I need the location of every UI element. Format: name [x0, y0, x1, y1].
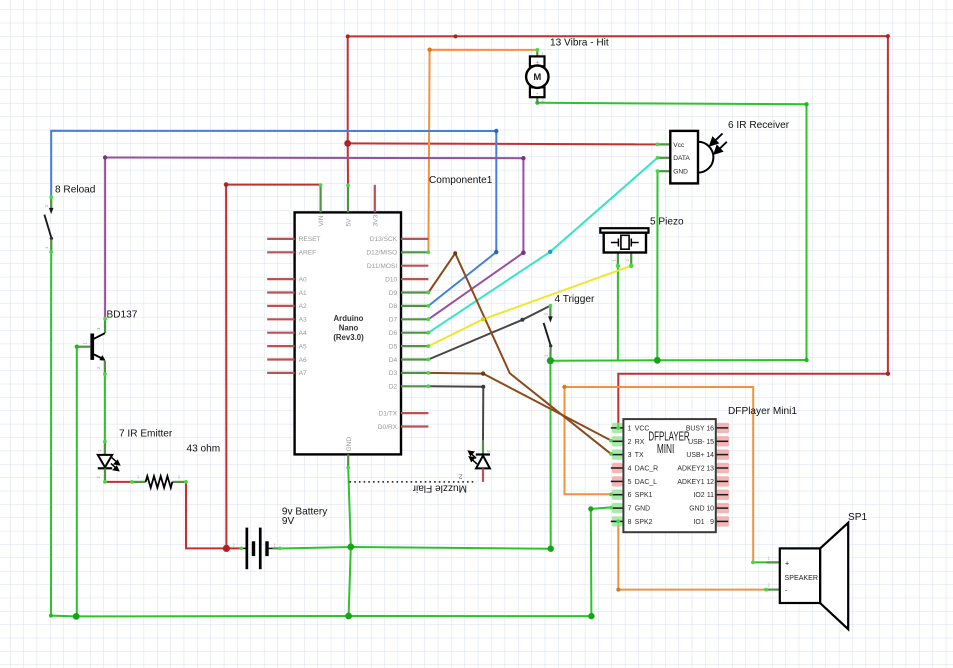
svg-text:USB+: USB+: [686, 452, 704, 459]
pin connection tips (bright green): [49, 48, 768, 591]
node green junctions: [73, 613, 80, 620]
svg-text:A7: A7: [299, 370, 307, 377]
node cyan bendpoint: [548, 250, 552, 254]
svg-text:DAC_L: DAC_L: [635, 479, 657, 486]
wire green battery-plus: [280, 547, 551, 549]
svg-text:D4: D4: [389, 357, 398, 364]
svg-text:3V3: 3V3: [372, 214, 379, 226]
svg-text:A2: A2: [299, 303, 307, 310]
wire cyan d6-to-ir-data: [428, 158, 657, 333]
svg-text:D5: D5: [389, 343, 398, 350]
wire green trigger-down: [549, 361, 551, 549]
wire red 5v-net-loop: [348, 36, 888, 428]
svg-text:VIN: VIN: [318, 215, 325, 226]
svg-text:DAC_R: DAC_R: [635, 466, 658, 473]
node green bendpoints: [49, 614, 53, 618]
svg-text:VCC: VCC: [635, 425, 650, 432]
svg-text:4: 4: [628, 466, 632, 473]
wire blue d8-to-reload: [51, 131, 496, 306]
svg-text:SPK2: SPK2: [635, 519, 653, 526]
node red vin corner: [224, 182, 229, 187]
svg-text:5V: 5V: [346, 218, 353, 227]
speaker SP1: [767, 523, 849, 629]
svg-text:ADKEY1: ADKEY1: [677, 479, 704, 486]
wire green trigger-bus: [550, 359, 806, 362]
svg-text:D12/MISO: D12/MISO: [366, 250, 397, 257]
svg-text:5 Piezo: 5 Piezo: [650, 217, 684, 228]
node gray bendpoints: [520, 318, 524, 322]
op-amp/mcu U1 Arduino Nano (Rev3.0) Componente1: [267, 185, 428, 468]
switch S1 trigger: [544, 306, 553, 361]
svg-text:Componente1: Componente1: [429, 175, 493, 186]
svg-text:D0/RX: D0/RX: [378, 424, 398, 431]
node brown bendpoints: [481, 371, 485, 375]
svg-text:AREF: AREF: [299, 250, 317, 257]
svg-text:GND: GND: [673, 169, 688, 176]
wire red resistor-to-battery: [186, 482, 241, 549]
wire orange spk1-to-speaker: [565, 387, 754, 562]
svg-text:Arduino: Arduino: [334, 314, 364, 323]
piezo SG1: [600, 228, 648, 266]
svg-text:A1: A1: [299, 290, 307, 297]
svg-text:D13/SCK: D13/SCK: [370, 236, 398, 243]
wire red led-to-resistor: [105, 481, 132, 483]
svg-text:12: 12: [706, 479, 714, 486]
svg-text:SPK1: SPK1: [635, 492, 653, 499]
svg-text:D11/MOSI: D11/MOSI: [367, 263, 397, 270]
svg-text:SP1: SP1: [848, 512, 867, 523]
wire red vin-to-battery: [225, 185, 227, 549]
svg-text:RESET: RESET: [299, 236, 321, 243]
node red top bendpoints: [454, 34, 458, 38]
node blue bendpoints: [494, 250, 498, 254]
svg-text:7: 7: [628, 506, 632, 513]
svg-text:IO1: IO1: [693, 519, 704, 526]
svg-text:MINI: MINI: [657, 443, 675, 457]
tiny pin numbers: [44, 52, 630, 479]
svg-text:+: +: [535, 59, 539, 66]
svg-text:15: 15: [706, 439, 714, 446]
wire purple d7-to-transistor: [105, 158, 523, 320]
IR receiver U3: [658, 131, 727, 184]
svg-text:4 Trigger: 4 Trigger: [555, 294, 595, 305]
wire red ir-receiver-vcc: [348, 143, 658, 144]
svg-text:D3: D3: [389, 370, 398, 377]
wire green ir-receiver-gnd: [656, 171, 658, 360]
svg-text:9V: 9V: [282, 516, 295, 527]
svg-text:43 ohm: 43 ohm: [187, 444, 221, 455]
label 2 Muzzle Flair (rotated 180) with dotted leader: [350, 481, 477, 483]
svg-text:6: 6: [628, 492, 632, 499]
wire brown d3-to-dfplayer-rx: [428, 373, 610, 441]
svg-text:ADKEY2: ADKEY2: [677, 466, 704, 473]
svg-text:GND: GND: [346, 437, 353, 452]
node yellow bendpoint: [481, 317, 485, 321]
svg-text:-: -: [536, 90, 538, 97]
svg-text:Nano: Nano: [339, 324, 359, 333]
svg-text:GND: GND: [635, 506, 650, 513]
wire brown d9-to-dfplayer-tx: [428, 253, 610, 453]
wire green reload-to-bus: [51, 252, 76, 616]
svg-text:13 Vibra - Hit: 13 Vibra - Hit: [550, 38, 609, 49]
svg-text:D1/TX: D1/TX: [379, 410, 398, 417]
svg-text:14: 14: [706, 452, 714, 459]
svg-text:1: 1: [628, 425, 632, 432]
wire orange spk2-to-speaker: [618, 521, 766, 589]
svg-text:USB-: USB-: [688, 439, 704, 446]
svg-text:A4: A4: [299, 330, 307, 337]
svg-text:7 IR Emitter: 7 IR Emitter: [119, 429, 173, 440]
svg-text:GND: GND: [689, 506, 704, 513]
svg-text:Muzzle Flair: Muzzle Flair: [412, 482, 467, 493]
svg-text:Vcc: Vcc: [673, 142, 685, 149]
svg-text:RX: RX: [635, 439, 645, 446]
svg-text:A0: A0: [299, 276, 307, 283]
svg-text:DATA: DATA: [673, 155, 690, 162]
svg-text:D7: D7: [389, 317, 398, 324]
svg-text:TX: TX: [635, 452, 644, 459]
svg-text:D6: D6: [389, 330, 398, 337]
switch S2 reload: [44, 197, 53, 252]
node red 5V junction: [344, 140, 351, 147]
svg-text:SPEAKER: SPEAKER: [785, 574, 819, 582]
svg-text:6 IR Receiver: 6 IR Receiver: [728, 120, 790, 131]
motor M1 vibra: [526, 50, 548, 103]
svg-text:9: 9: [710, 519, 714, 526]
wire red 5v-stub-link: [347, 143, 349, 185]
svg-text:2: 2: [628, 439, 632, 446]
svg-text:11: 11: [707, 492, 714, 499]
svg-text:D8: D8: [389, 303, 398, 310]
wire yellow d5-to-piezo: [428, 266, 631, 346]
wire green dfplayer-gnd: [591, 507, 611, 616]
wire green emitter-to-led: [104, 374, 106, 441]
wire green piezo-left-down: [617, 266, 619, 361]
svg-text:8 Reload: 8 Reload: [55, 185, 95, 196]
wire green transistor-base-to-bus: [76, 347, 78, 617]
wire gray d4-to-trigger: [428, 306, 550, 360]
svg-text:A3: A3: [299, 317, 307, 324]
wire green bottom ground bus: [76, 615, 591, 617]
svg-text:8: 8: [628, 519, 632, 526]
LED D2 muzzle flair (rotated 180): [469, 441, 490, 482]
svg-text:16: 16: [706, 425, 714, 432]
svg-text:D9: D9: [389, 290, 398, 297]
wire green motor-minus: [537, 103, 806, 360]
node purple bendpoints: [521, 250, 526, 255]
svg-text:+: +: [785, 558, 790, 567]
svg-text:3: 3: [628, 452, 632, 459]
svg-text:A5: A5: [299, 343, 307, 350]
svg-text:(Rev3.0): (Rev3.0): [333, 333, 364, 342]
svg-text:2: 2: [459, 473, 463, 480]
svg-text:D2: D2: [389, 384, 398, 391]
svg-text:BD137: BD137: [107, 310, 138, 321]
svg-text:10: 10: [706, 506, 714, 513]
node orange bendpoints: [427, 48, 431, 52]
resistor R1 43 ohm: [132, 475, 186, 488]
svg-text:M: M: [533, 72, 541, 83]
svg-text:DFPlayer Mini1: DFPlayer Mini1: [728, 406, 797, 417]
wire green arduino-gnd-down: [348, 468, 351, 616]
svg-text:D10: D10: [385, 276, 397, 283]
svg-text:5: 5: [628, 479, 632, 486]
svg-text:IO2: IO2: [693, 492, 704, 499]
wire green speaker-plus-stub: [753, 561, 780, 563]
wire gray d2-to-muzzle-led: [428, 386, 483, 441]
LED D1 IR emitter: [98, 441, 120, 482]
wire orange d12-to-motor: [428, 50, 537, 253]
svg-text:13: 13: [706, 466, 714, 473]
battery BT1 9V: [233, 528, 280, 570]
wire red vin: [226, 184, 321, 186]
module U2 DFPlayer Mini: [611, 419, 729, 532]
svg-text:A6: A6: [299, 357, 307, 364]
node red battery junction: [223, 545, 230, 552]
transistor Q1 BD137: [77, 319, 106, 375]
